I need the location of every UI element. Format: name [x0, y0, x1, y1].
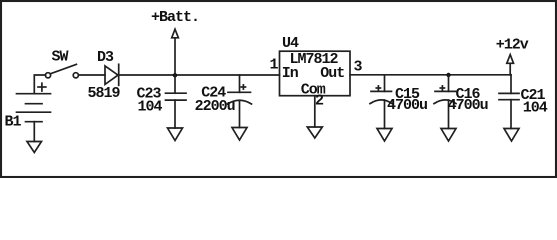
svg-text:+Batt.: +Batt. [151, 9, 199, 26]
power flag +Batt. [172, 29, 179, 75]
battery B1 [17, 83, 51, 122]
svg-text:4700u: 4700u [448, 97, 488, 114]
wire battery positive to switch [34, 75, 45, 94]
svg-text:U4: U4 [282, 35, 299, 52]
svg-text:3: 3 [354, 59, 363, 76]
ground (C23) [168, 128, 183, 141]
ground (C24) [232, 128, 247, 141]
power flag +12v [507, 55, 514, 75]
svg-text:SW: SW [52, 49, 69, 66]
regulator U4 [280, 51, 351, 95]
svg-text:4700u: 4700u [387, 97, 427, 114]
svg-text:104: 104 [138, 99, 163, 116]
capacitor C23 [166, 75, 187, 128]
svg-text:2: 2 [315, 93, 324, 110]
wire U4 pin 3 to +12v corner (output rail) [350, 74, 511, 76]
svg-text:104: 104 [523, 100, 548, 117]
ground (U4 pin 2) [307, 127, 322, 138]
capacitor C24 [228, 75, 252, 128]
diode D3 [105, 64, 119, 85]
svg-text:Out: Out [320, 65, 344, 82]
capacitor C21 [499, 75, 519, 129]
ground (B1) [27, 142, 42, 153]
capacitor C15 [370, 75, 392, 129]
svg-text:2200u: 2200u [195, 98, 235, 115]
svg-text:In: In [282, 65, 299, 82]
ground (C16) [441, 129, 456, 142]
wire battery negative to ground [33, 122, 35, 142]
ground (C21) [504, 129, 519, 142]
svg-text:D3: D3 [97, 49, 114, 66]
svg-text:B1: B1 [5, 114, 22, 131]
wire switch to diode [78, 74, 105, 76]
svg-text:1: 1 [270, 57, 279, 74]
svg-text:+12v: +12v [496, 36, 529, 53]
svg-text:5819: 5819 [88, 85, 121, 102]
switch SW [45, 64, 78, 78]
junction node at C16 [446, 73, 450, 77]
capacitor C16 [434, 75, 456, 129]
wire diode to U4 pin 1 (main rail) [119, 74, 280, 76]
wire U4 pin 2 to ground [314, 96, 316, 127]
ground (C15) [377, 129, 392, 142]
junction node at C23 / +Batt [173, 73, 177, 77]
